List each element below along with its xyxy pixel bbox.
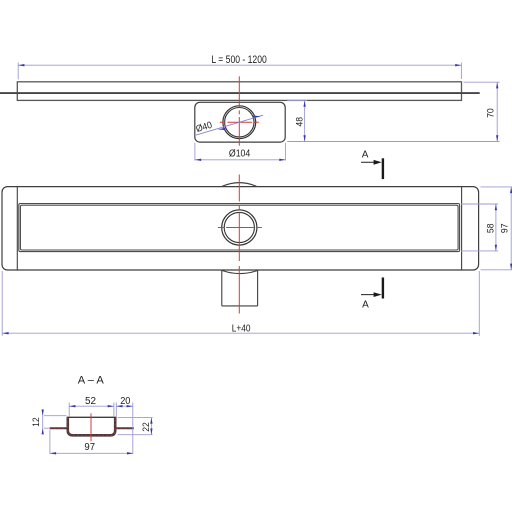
svg-text:L = 500 - 1200: L = 500 - 1200 <box>211 54 266 66</box>
outlet pipe left edge <box>221 270 223 306</box>
channel plan outline <box>2 187 479 270</box>
svg-text:Ø104: Ø104 <box>229 148 251 160</box>
svg-text:97: 97 <box>84 442 95 453</box>
dimension 12 <box>30 409 66 434</box>
section mark upper <box>361 150 383 180</box>
dimension 52 <box>69 396 114 417</box>
plan circle inner <box>224 212 254 242</box>
red centerline section <box>90 413 92 441</box>
plan circle outer <box>222 210 257 245</box>
svg-text:L+40: L+40 <box>232 323 251 335</box>
svg-text:A: A <box>362 300 369 311</box>
dimension 70 <box>287 82 499 141</box>
dimension D40 leader <box>195 115 263 135</box>
dimension 48 <box>287 101 307 142</box>
red centerline horizontal top view <box>220 121 259 123</box>
svg-text:20: 20 <box>120 396 131 407</box>
tub top rim line <box>67 416 117 418</box>
svg-text:22: 22 <box>140 422 151 432</box>
svg-text:52: 52 <box>85 396 96 407</box>
floor flange line <box>0 92 480 94</box>
siphon housing box <box>195 102 285 142</box>
svg-text:12: 12 <box>30 417 41 427</box>
dimension D104 <box>195 143 286 161</box>
svg-text:70: 70 <box>484 108 495 118</box>
dimension 58 <box>461 204 498 251</box>
outlet pipe sag arc <box>222 271 257 274</box>
channel bar side view <box>17 82 461 101</box>
dimension 20 <box>116 396 133 454</box>
tub profile walls and bottom <box>68 417 115 435</box>
svg-text:A – A: A – A <box>78 375 105 387</box>
outlet pipe bottom edge <box>222 305 258 307</box>
svg-text:A: A <box>362 150 369 161</box>
outlet circle outer <box>223 106 256 139</box>
grate frame outer <box>19 204 460 252</box>
outlet pipe right edge <box>257 270 259 306</box>
svg-text:48: 48 <box>294 117 305 127</box>
grate frame inner <box>20 205 458 250</box>
dimension 22 <box>118 418 153 435</box>
dimension L = 500 - 1200 <box>18 54 461 80</box>
siphon bump arc top <box>222 183 256 187</box>
end cap line left <box>16 187 18 270</box>
svg-text:58: 58 <box>485 224 496 234</box>
outlet circle inner <box>225 108 254 137</box>
left flange tail <box>50 427 67 429</box>
right flange tail <box>116 427 134 429</box>
dimension 97 section <box>50 430 133 455</box>
section mark lower <box>361 278 383 311</box>
svg-text:97: 97 <box>498 224 509 234</box>
red centerline horizontal plan <box>218 227 262 229</box>
end cap line right <box>461 187 463 270</box>
dimension 97 plan <box>481 187 512 270</box>
dimension L+40 <box>2 271 479 336</box>
red centerline vertical top view <box>238 76 240 145</box>
red centerline vertical plan <box>238 175 240 314</box>
tub profile red hatch overlay <box>68 417 115 435</box>
